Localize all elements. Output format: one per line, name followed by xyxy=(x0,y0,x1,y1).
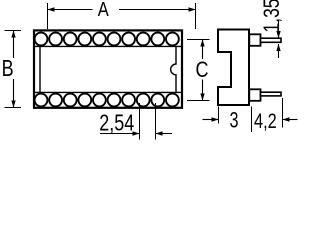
svg-text:4,2: 4,2 xyxy=(254,110,277,133)
svg-text:A: A xyxy=(98,0,110,21)
svg-text:2,54: 2,54 xyxy=(99,110,134,136)
svg-text:3: 3 xyxy=(230,107,239,132)
svg-text:C: C xyxy=(196,57,209,82)
svg-text:1,35: 1,35 xyxy=(259,0,284,33)
svg-text:B: B xyxy=(2,55,14,81)
